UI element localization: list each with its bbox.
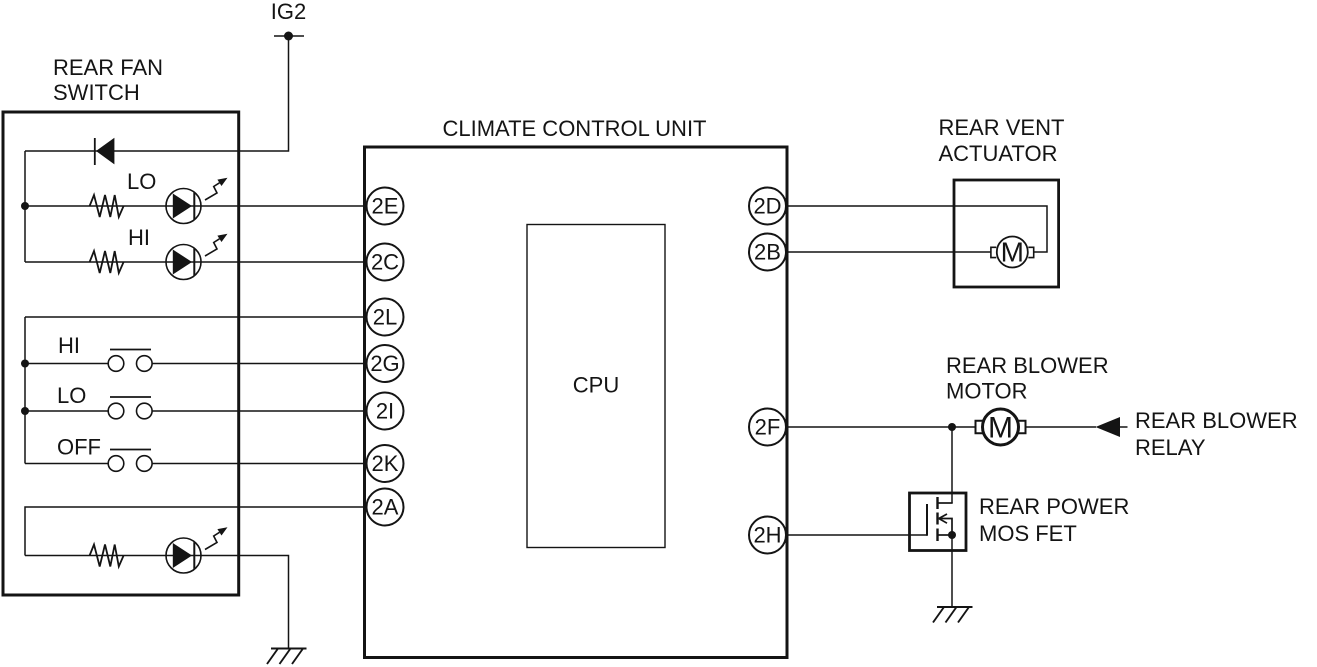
LED bottom <box>166 527 228 573</box>
diode (cathode bar) <box>94 138 96 165</box>
connector pin 2H <box>749 517 786 554</box>
wire IG2 down to diode row <box>25 36 289 151</box>
svg-text:2A: 2A <box>372 495 399 520</box>
switch OFF contacts <box>108 450 152 472</box>
svg-text:LO: LO <box>127 169 156 194</box>
junction dot at blower motor branch <box>948 423 956 431</box>
svg-text:2F: 2F <box>755 415 781 440</box>
svg-text:RELAY: RELAY <box>1135 435 1206 460</box>
MOS FET drain lead <box>938 502 953 504</box>
IG2 terminal tick <box>274 35 304 37</box>
label REAR BLOWER RELAY <box>1135 408 1298 460</box>
wire 2L row <box>25 316 367 318</box>
svg-text:2E: 2E <box>372 194 399 219</box>
wire OFF switch row <box>25 463 367 465</box>
REAR POWER MOS FET box <box>910 493 967 551</box>
REAR FAN SWITCH box <box>3 112 239 595</box>
svg-text:2K: 2K <box>372 451 399 476</box>
wire MOS FET source to ground <box>951 535 953 607</box>
IG2 terminal dot <box>284 32 293 41</box>
switch HI contacts <box>108 350 152 372</box>
svg-text:2G: 2G <box>370 351 399 376</box>
ground symbol (rear power MOS FET) <box>933 607 973 623</box>
connector pin 2K <box>367 445 404 482</box>
svg-text:MOS FET: MOS FET <box>979 521 1077 546</box>
MOS FET channel segments <box>936 497 938 541</box>
CPU box <box>527 225 665 548</box>
wire switch bus vertical <box>24 317 26 464</box>
svg-text:2I: 2I <box>376 399 394 424</box>
MOS FET body arrow <box>939 514 952 535</box>
wire HI switch row <box>25 363 367 365</box>
REAR VENT ACTUATOR box <box>954 180 1059 287</box>
label REAR FAN SWITCH <box>53 55 163 105</box>
resistor (LO LED) <box>90 195 124 217</box>
svg-text:CLIMATE CONTROL UNIT: CLIMATE CONTROL UNIT <box>442 116 706 141</box>
wire 2H to MOS FET gate <box>786 534 927 536</box>
connector pin 2B <box>749 234 786 271</box>
wire left bus (diode row to HI LED row) <box>24 151 26 262</box>
wire blower motor to relay arrow <box>1026 426 1097 428</box>
svg-text:REAR BLOWER: REAR BLOWER <box>946 353 1109 378</box>
svg-text:ACTUATOR: ACTUATOR <box>939 141 1058 166</box>
junction dot LO switch row <box>21 407 29 415</box>
wire HI LED row <box>25 261 367 263</box>
svg-text:SWITCH: SWITCH <box>53 80 140 105</box>
resistor (HI LED) <box>90 251 124 273</box>
wire 2F to blower motor <box>786 426 976 428</box>
wire 2A row <box>25 507 367 556</box>
motor M (rear blower) <box>976 409 1026 445</box>
connector pin 2E <box>367 188 404 225</box>
svg-text:2L: 2L <box>373 305 397 330</box>
svg-text:REAR FAN: REAR FAN <box>53 55 163 80</box>
CLIMATE CONTROL UNIT box <box>365 147 788 658</box>
motor M (rear vent actuator) <box>991 237 1034 268</box>
label REAR BLOWER MOTOR <box>946 353 1109 404</box>
svg-text:2H: 2H <box>753 523 781 548</box>
svg-text:2B: 2B <box>754 240 781 265</box>
LED LO <box>166 178 228 224</box>
wire junction down to MOS FET drain <box>951 427 953 503</box>
connector pin 2D <box>749 188 786 225</box>
svg-text:OFF: OFF <box>57 435 101 460</box>
svg-text:MOTOR: MOTOR <box>946 379 1027 404</box>
resistor (bottom LED) <box>90 545 124 567</box>
diode (triangle) <box>96 138 114 165</box>
svg-text:CPU: CPU <box>573 373 619 398</box>
junction dot HI switch row <box>21 360 29 368</box>
svg-text:2C: 2C <box>371 250 399 275</box>
wire bottom LED row to ground <box>25 556 289 649</box>
connector pin 2C <box>367 244 404 281</box>
wire LO switch row <box>25 410 367 412</box>
label REAR POWER MOS FET <box>979 494 1129 546</box>
connector pin 2G <box>367 345 404 382</box>
svg-text:HI: HI <box>128 225 150 250</box>
svg-text:HI: HI <box>58 333 80 358</box>
junction dot LO LED row <box>21 202 29 210</box>
switch LO contacts <box>108 397 152 419</box>
MOS FET source lead <box>938 534 953 536</box>
ground symbol (rear fan switch) <box>267 649 307 665</box>
connector pin 2I <box>367 393 404 430</box>
svg-text:M: M <box>1001 237 1024 268</box>
arrow to REAR BLOWER RELAY <box>1096 417 1128 437</box>
svg-text:M: M <box>988 412 1013 445</box>
junction dot MOS FET source <box>948 531 956 539</box>
svg-text:REAR POWER: REAR POWER <box>979 494 1129 519</box>
wire LO LED row <box>25 205 367 207</box>
svg-text:IG2: IG2 <box>271 0 306 24</box>
MOS FET gate bar <box>926 504 928 536</box>
svg-text:REAR VENT: REAR VENT <box>939 115 1065 140</box>
connector pin 2A <box>367 489 404 526</box>
connector pin 2L <box>367 299 404 336</box>
connector pin 2F <box>749 409 786 446</box>
LED HI <box>166 234 228 280</box>
wire 2B to actuator motor <box>786 251 991 253</box>
svg-text:REAR BLOWER: REAR BLOWER <box>1135 408 1298 433</box>
svg-text:LO: LO <box>57 383 86 408</box>
svg-text:2D: 2D <box>753 194 781 219</box>
wire 2D to actuator <box>786 206 1047 252</box>
label REAR VENT ACTUATOR <box>939 115 1065 166</box>
